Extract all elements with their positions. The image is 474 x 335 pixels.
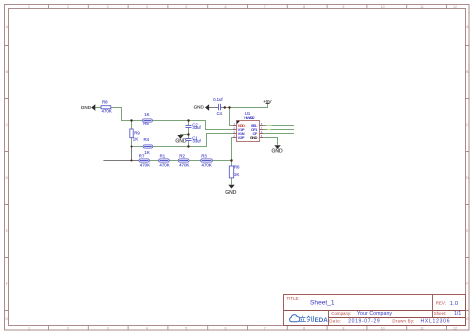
svg-text:R1: R1 <box>160 154 166 159</box>
svg-text:Sheet_1: Sheet_1 <box>310 299 335 306</box>
svg-text:12: 12 <box>453 327 457 331</box>
svg-text:C4: C4 <box>217 111 223 116</box>
svg-text:R6: R6 <box>234 165 240 170</box>
svg-text:TITLE:: TITLE: <box>287 296 300 301</box>
svg-text:GND: GND <box>194 105 205 110</box>
svg-text:D: D <box>466 176 469 180</box>
svg-text:470K: 470K <box>159 163 169 168</box>
svg-text:1: 1 <box>28 327 30 331</box>
svg-text:8: 8 <box>303 5 305 9</box>
svg-text:Company:: Company: <box>331 311 351 316</box>
svg-text:V2P: V2P <box>238 135 245 140</box>
svg-text:1K: 1K <box>234 172 239 177</box>
svg-text:9: 9 <box>342 327 344 331</box>
svg-text:R5: R5 <box>143 121 149 126</box>
svg-text:R3: R3 <box>201 154 207 159</box>
svg-text:EDA: EDA <box>315 317 329 324</box>
svg-text:9: 9 <box>342 5 344 9</box>
svg-text:3: 3 <box>107 5 109 9</box>
svg-text:D: D <box>5 176 8 180</box>
svg-text:5: 5 <box>185 327 187 331</box>
svg-text:2: 2 <box>67 5 69 9</box>
svg-text:4: 4 <box>146 5 148 9</box>
svg-text:C: C <box>466 123 469 127</box>
svg-text:12: 12 <box>453 5 457 9</box>
svg-text:7: 7 <box>264 327 266 331</box>
svg-text:470K: 470K <box>102 108 112 113</box>
svg-text:HLW8012: HLW8012 <box>244 115 254 120</box>
svg-text:11: 11 <box>420 5 424 9</box>
svg-text:HXL12306: HXL12306 <box>421 318 450 324</box>
svg-text:1K: 1K <box>144 112 149 117</box>
svg-text:1K: 1K <box>144 150 149 155</box>
svg-text:Sheet:: Sheet: <box>434 311 447 316</box>
svg-text:11: 11 <box>420 327 424 331</box>
svg-text:1.0: 1.0 <box>450 301 458 307</box>
svg-text:G: G <box>466 317 469 321</box>
svg-text:GND: GND <box>175 139 187 145</box>
svg-text:33uf: 33uf <box>193 125 202 130</box>
svg-text:10: 10 <box>381 5 385 9</box>
svg-text:470K: 470K <box>179 163 189 168</box>
svg-text:R9: R9 <box>134 130 140 135</box>
svg-text:1/1: 1/1 <box>454 311 461 317</box>
svg-text:GND: GND <box>272 148 284 154</box>
svg-text:3: 3 <box>107 327 109 331</box>
svg-text:R8: R8 <box>102 100 108 105</box>
svg-text:Drawn By:: Drawn By: <box>392 319 414 324</box>
svg-text:GND: GND <box>250 135 258 140</box>
svg-text:470K: 470K <box>140 163 150 168</box>
svg-text:C: C <box>5 123 8 127</box>
svg-text:GND: GND <box>81 105 92 110</box>
svg-text:7: 7 <box>264 5 266 9</box>
svg-text:2019-07-29: 2019-07-29 <box>348 318 380 324</box>
svg-text:5: 5 <box>185 5 187 9</box>
svg-text:8: 8 <box>303 327 305 331</box>
svg-text:1K: 1K <box>133 137 138 142</box>
svg-text:6: 6 <box>225 5 227 9</box>
svg-text:2: 2 <box>67 327 69 331</box>
svg-text:0.1uf: 0.1uf <box>213 97 223 102</box>
svg-text:1: 1 <box>28 5 30 9</box>
svg-text:G: G <box>5 317 8 321</box>
svg-text:4: 4 <box>146 327 148 331</box>
svg-text:REV:: REV: <box>436 301 446 306</box>
svg-text:Your Company: Your Company <box>357 311 392 317</box>
svg-text:Date:: Date: <box>329 318 341 323</box>
svg-text:R7: R7 <box>139 154 145 159</box>
svg-text:GND: GND <box>225 190 237 196</box>
svg-text:10: 10 <box>381 327 385 331</box>
svg-text:6: 6 <box>225 327 227 331</box>
svg-text:R2: R2 <box>179 154 185 159</box>
svg-text:470K: 470K <box>202 163 212 168</box>
svg-text:R4: R4 <box>144 137 150 142</box>
svg-text:33uf: 33uf <box>193 138 202 143</box>
